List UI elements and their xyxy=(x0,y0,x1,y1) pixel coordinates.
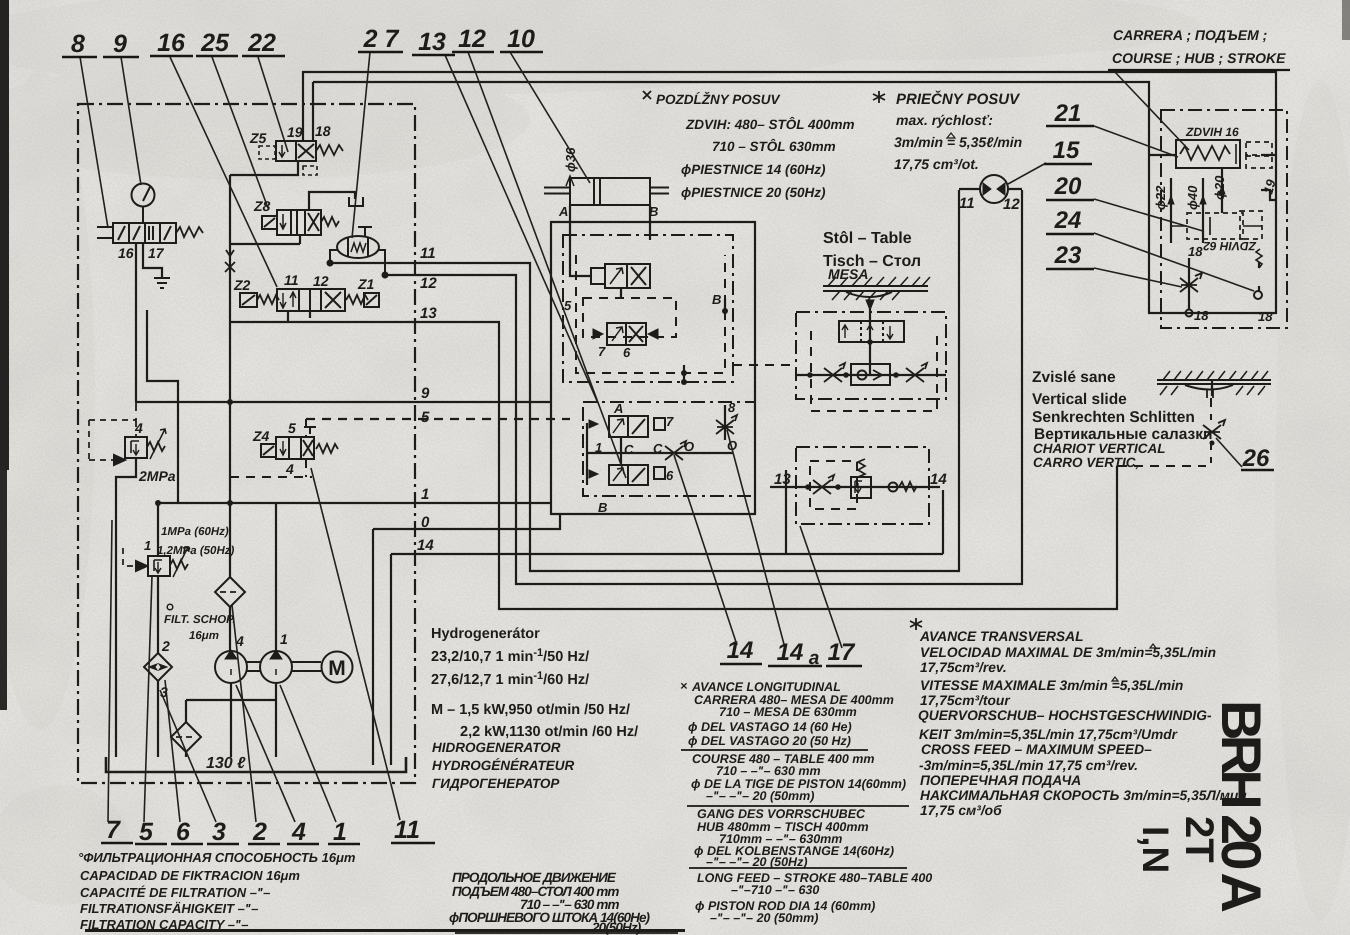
svg-text:ZDVIH: 480– STÔL 400mm: ZDVIH: 480– STÔL 400mm xyxy=(685,116,855,132)
svg-text:7: 7 xyxy=(106,816,121,844)
svg-text:HIDROGENERATOR: HIDROGENERATOR xyxy=(432,740,561,755)
svg-text:B: B xyxy=(712,292,721,307)
svg-text:2 7: 2 7 xyxy=(363,25,400,53)
svg-text:BRH 20 A: BRH 20 A xyxy=(1210,700,1273,913)
svg-text:10: 10 xyxy=(507,25,535,53)
svg-text:–ʺ–710 –ʺ– 630: –ʺ–710 –ʺ– 630 xyxy=(731,883,819,897)
svg-text:17: 17 xyxy=(828,639,856,666)
svg-text:AVANCE LONGITUDINAL: AVANCE LONGITUDINAL xyxy=(691,680,841,694)
svg-text:130 ℓ: 130 ℓ xyxy=(206,755,246,772)
svg-text:Zvislé sane: Zvislé sane xyxy=(1032,369,1116,386)
svg-text:18: 18 xyxy=(1188,244,1203,259)
svg-text:O: O xyxy=(684,439,694,454)
svg-text:4: 4 xyxy=(235,633,244,649)
svg-text:8: 8 xyxy=(71,30,85,58)
svg-text:24: 24 xyxy=(1054,207,1082,234)
svg-text:12: 12 xyxy=(1003,196,1020,213)
svg-text:M: M xyxy=(328,657,346,680)
svg-text:5: 5 xyxy=(139,818,154,846)
svg-text:VITESSE MAXIMALE 3m/min =5,35: VITESSE MAXIMALE 3m/min =5,35L/min xyxy=(920,678,1183,693)
svg-text:1: 1 xyxy=(280,631,288,647)
svg-text:1: 1 xyxy=(421,486,429,503)
svg-text:Z5: Z5 xyxy=(249,130,267,146)
svg-text:5: 5 xyxy=(288,420,296,436)
svg-text:CHARIOT VERTICAL: CHARIOT VERTICAL xyxy=(1033,441,1166,456)
svg-text:7: 7 xyxy=(666,414,674,429)
svg-text:НАКСИМАЛЬНАЯ СКОРОСТЬ 3m/min=: НАКСИМАЛЬНАЯ СКОРОСТЬ 3m/min=5,35Л/мин xyxy=(920,788,1247,803)
svg-text:8: 8 xyxy=(728,400,736,415)
svg-text:17: 17 xyxy=(148,245,165,261)
svg-text:3: 3 xyxy=(212,818,226,846)
svg-text:ϕ36: ϕ36 xyxy=(563,147,578,172)
svg-text:ZDVIH 62: ZDVIH 62 xyxy=(1203,239,1257,253)
svg-text:17,75 cm³/ot.: 17,75 cm³/ot. xyxy=(894,156,979,172)
svg-text:Vertical slide: Vertical slide xyxy=(1032,391,1127,408)
svg-text:12: 12 xyxy=(420,275,437,292)
svg-text:ПОПЕРЕЧНАЯ ПОДАЧА: ПОПЕРЕЧНАЯ ПОДАЧА xyxy=(920,773,1081,788)
svg-text:ϕ40: ϕ40 xyxy=(1185,185,1200,210)
svg-text:25: 25 xyxy=(200,29,230,57)
svg-text:Hydrogenerátor: Hydrogenerátor xyxy=(431,626,540,642)
svg-text:CAPACITÉ DE FILTRATION –ʺ–: CAPACITÉ DE FILTRATION –ʺ– xyxy=(80,885,270,900)
svg-text:CROSS FEED – MAXIMUM SPEED–: CROSS FEED – MAXIMUM SPEED– xyxy=(921,742,1152,757)
svg-text:O: O xyxy=(727,438,737,453)
svg-text:3: 3 xyxy=(160,684,168,700)
svg-text:A: A xyxy=(558,204,568,219)
svg-text:4: 4 xyxy=(134,420,143,436)
svg-text:C: C xyxy=(653,441,663,456)
svg-text:17,75cm³/tour: 17,75cm³/tour xyxy=(920,693,1010,708)
svg-text:4: 4 xyxy=(285,461,294,477)
svg-text:Z1: Z1 xyxy=(357,276,375,292)
svg-text:11: 11 xyxy=(959,195,975,212)
svg-text:14: 14 xyxy=(417,537,434,554)
svg-text:710 – MESA DE 630mm: 710 – MESA DE 630mm xyxy=(719,705,857,719)
svg-text:0: 0 xyxy=(421,514,430,531)
svg-text:14: 14 xyxy=(777,639,804,666)
svg-text:-3m/min=5,35L/min 17,75 cm³/r: -3m/min=5,35L/min 17,75 cm³/rev. xyxy=(919,758,1138,773)
svg-text:CARRERA ; ПОДЪЕМ ;: CARRERA ; ПОДЪЕМ ; xyxy=(1113,27,1267,43)
svg-text:AVANCE TRANSVERSAL: AVANCE TRANSVERSAL xyxy=(919,629,1084,644)
svg-text:MESA: MESA xyxy=(828,266,868,282)
svg-text:C: C xyxy=(624,442,634,457)
svg-text:ϕPIESTNICE 20 (50Hz): ϕPIESTNICE 20 (50Hz) xyxy=(681,185,826,200)
svg-text:16μm: 16μm xyxy=(189,630,219,642)
svg-text:1,2MPa (50Hz): 1,2MPa (50Hz) xyxy=(157,545,235,557)
svg-text:FILTRATION CAPACITY –ʺ–: FILTRATION CAPACITY –ʺ– xyxy=(80,917,248,932)
svg-text:6: 6 xyxy=(666,468,674,483)
svg-text:COURSE ; HUB ; STROKE: COURSE ; HUB ; STROKE xyxy=(1112,50,1286,66)
svg-text:16: 16 xyxy=(157,29,186,57)
svg-text:21: 21 xyxy=(1054,100,1082,127)
svg-text:18: 18 xyxy=(315,123,331,139)
svg-text:6: 6 xyxy=(623,345,631,360)
svg-text:A: A xyxy=(613,401,623,416)
svg-text:18: 18 xyxy=(1194,308,1209,323)
svg-text:ϕ22: ϕ22 xyxy=(1153,185,1168,210)
svg-text:11: 11 xyxy=(284,272,299,288)
svg-text:×: × xyxy=(680,679,688,693)
svg-text:14: 14 xyxy=(727,637,754,664)
svg-text:11: 11 xyxy=(394,816,420,844)
svg-text:I,N: I,N xyxy=(1135,826,1176,873)
svg-text:Z4: Z4 xyxy=(252,428,270,444)
svg-text:ZDVIH 16: ZDVIH 16 xyxy=(1185,125,1239,139)
svg-text:2: 2 xyxy=(252,818,267,846)
svg-text:2,2 kW,1130 ot/min /60 Hz/: 2,2 kW,1130 ot/min /60 Hz/ xyxy=(460,724,638,740)
svg-text:ПРОДОЛЬНОЕ ДВИЖЕНИЕ: ПРОДОЛЬНОЕ ДВИЖЕНИЕ xyxy=(452,870,617,885)
svg-text:1: 1 xyxy=(333,818,347,846)
svg-text:1MPa (60Hz): 1MPa (60Hz) xyxy=(161,526,229,538)
svg-text:20: 20 xyxy=(1054,173,1082,200)
svg-text:23: 23 xyxy=(1054,242,1082,269)
svg-text:15: 15 xyxy=(1053,137,1080,164)
svg-text:GANG DES VORRSCHUBEС: GANG DES VORRSCHUBEС xyxy=(697,807,866,821)
svg-text:19: 19 xyxy=(287,124,303,140)
svg-text:17,75 см³/об: 17,75 см³/об xyxy=(920,803,1002,818)
svg-text:27,6/12,7 1 min-1/60 Hz/: 27,6/12,7 1 min-1/60 Hz/ xyxy=(431,670,589,688)
svg-text:ϕ20: ϕ20 xyxy=(1212,175,1227,200)
svg-text:KEIT 3m/min=5,35L/min 17,75cm³: KEIT 3m/min=5,35L/min 17,75cm³/Umdr xyxy=(919,727,1178,742)
svg-text:PRIEČNY POSUV: PRIEČNY POSUV xyxy=(896,90,1021,108)
svg-text:B: B xyxy=(598,500,607,515)
svg-text:FILT. SCHOP.: FILT. SCHOP. xyxy=(164,614,236,626)
svg-text:12: 12 xyxy=(313,273,329,289)
svg-text:ϕ DEL VASTAGO 14 (60 Hе): ϕ DEL VASTAGO 14 (60 Hе) xyxy=(688,720,852,734)
svg-text:M – 1,5 kW,950 ot/min /50 Hz/: M – 1,5 kW,950 ot/min /50 Hz/ xyxy=(431,702,630,718)
svg-text:QUERVORSCHUB– HOCHSTGESCHWINDI: QUERVORSCHUB– HOCHSTGESCHWINDIG- xyxy=(918,708,1212,723)
svg-text:13: 13 xyxy=(420,305,437,322)
svg-text:18: 18 xyxy=(1258,309,1273,324)
svg-text:–ʺ– –ʺ– 20 (50mm): –ʺ– –ʺ– 20 (50mm) xyxy=(706,789,814,803)
svg-text:Stôl – Table: Stôl – Table xyxy=(823,230,912,247)
svg-text:13: 13 xyxy=(418,28,446,56)
svg-text:3m/min = 5,35ℓ/min: 3m/min = 5,35ℓ/min xyxy=(894,134,1022,150)
svg-text:1: 1 xyxy=(595,440,602,455)
svg-text:CAPACIDAD DE FIKTRACION 16μm: CAPACIDAD DE FIKTRACION 16μm xyxy=(80,868,300,883)
svg-text:7: 7 xyxy=(598,344,606,359)
svg-text:2T: 2T xyxy=(1177,816,1221,863)
svg-text:16: 16 xyxy=(118,245,134,261)
svg-text:–ʺ– –ʺ– 20 (50Hz): –ʺ– –ʺ– 20 (50Hz) xyxy=(706,855,808,869)
svg-text:Senkrechten Schlitten: Senkrechten Schlitten xyxy=(1032,409,1195,426)
svg-text:710 – STÔL 630mm: 710 – STÔL 630mm xyxy=(712,138,836,154)
svg-text:6: 6 xyxy=(176,818,191,846)
svg-text:ГИДРОГЕНЕРАТОР: ГИДРОГЕНЕРАТОР xyxy=(432,776,560,791)
svg-text:FILTRATIONSFÄHIGKEIT –ʺ–: FILTRATIONSFÄHIGKEIT –ʺ– xyxy=(80,901,258,916)
svg-text:23,2/10,7 1 min-1/50 Hz/: 23,2/10,7 1 min-1/50 Hz/ xyxy=(431,647,589,665)
svg-text:12: 12 xyxy=(458,25,486,53)
svg-text:–ʺ– –ʺ– 20 (50mm): –ʺ– –ʺ– 20 (50mm) xyxy=(710,911,818,925)
svg-text:ϕ DEL VASTAGO 20 (50 Hz): ϕ DEL VASTAGO 20 (50 Hz) xyxy=(688,734,851,748)
svg-text:26: 26 xyxy=(1242,445,1270,472)
svg-text:710 – –ʺ– 630 mm: 710 – –ʺ– 630 mm xyxy=(716,764,821,778)
svg-text:Z8: Z8 xyxy=(253,198,271,214)
svg-text:B: B xyxy=(649,204,658,219)
svg-text:11: 11 xyxy=(420,245,436,262)
svg-text:VELOCIDAD MAXIMAL DE 3m/min=5: VELOCIDAD MAXIMAL DE 3m/min=5,35L/min xyxy=(920,645,1216,660)
svg-text:13: 13 xyxy=(774,471,791,488)
svg-text:9: 9 xyxy=(421,385,430,402)
svg-text:17,75cm³/rev.: 17,75cm³/rev. xyxy=(920,660,1007,675)
svg-text:1: 1 xyxy=(144,538,151,553)
svg-text:14: 14 xyxy=(930,471,947,488)
svg-text:2MPa: 2MPa xyxy=(138,468,176,484)
svg-text:9: 9 xyxy=(113,30,127,58)
svg-text:ϕPIESTNICE 14 (60Hz): ϕPIESTNICE 14 (60Hz) xyxy=(681,162,826,177)
svg-text:5: 5 xyxy=(421,409,430,426)
svg-text:max. rýchlosť:: max. rýchlosť: xyxy=(896,112,993,128)
svg-text:Z2: Z2 xyxy=(233,277,251,293)
svg-text:POZDĹŽNY POSUV: POZDĹŽNY POSUV xyxy=(656,91,781,107)
svg-text:CARRO VERTIC,: CARRO VERTIC, xyxy=(1033,455,1139,470)
svg-text:°ФИЛЬТРАЦИОННАЯ СПОСОБНОСТЬ 1: °ФИЛЬТРАЦИОННАЯ СПОСОБНОСТЬ 16μm xyxy=(78,850,356,865)
svg-text:5: 5 xyxy=(564,298,572,313)
svg-text:2: 2 xyxy=(161,638,170,654)
svg-text:4: 4 xyxy=(291,818,306,846)
svg-text:22: 22 xyxy=(247,29,276,57)
svg-text:HYDROGÉNÉRATEUR: HYDROGÉNÉRATEUR xyxy=(432,758,575,773)
